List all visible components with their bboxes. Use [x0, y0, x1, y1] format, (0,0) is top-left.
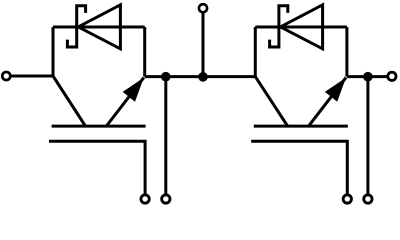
wire Q2 auxiliary emitter drop	[366, 77, 369, 194]
transistor Q1 emitter arrow	[106, 78, 143, 127]
wire top of cell 1	[53, 26, 145, 29]
diode D2	[280, 5, 322, 49]
terminal 7 (Q2 auxiliary emitter)	[364, 195, 372, 203]
terminal 2 (phase output, top middle)	[199, 4, 207, 12]
wire terminal 1 to Q1 collector node	[11, 75, 53, 78]
wire Q2 emitter to terminal 3	[347, 75, 388, 78]
wire D1 anode to emitter node	[143, 27, 146, 77]
junction Q2 auxiliary emitter	[363, 72, 373, 82]
terminal 4 (Q1 gate)	[141, 195, 149, 203]
transistor Q2 body bar	[254, 125, 348, 128]
wire mid bus (Q1 emitter to Q2 collector)	[145, 75, 256, 78]
wire top of cell 2	[255, 26, 347, 29]
diode D1	[78, 5, 120, 49]
transistor Q2 emitter arrow	[309, 78, 346, 127]
diode D2 cathode bar with hooks	[270, 6, 288, 47]
terminal 6 (Q2 gate)	[343, 195, 351, 203]
terminal 5 (Q1 auxiliary emitter)	[162, 195, 170, 203]
wire terminal 2 riser	[202, 13, 205, 77]
terminal 1 (left collector terminal)	[2, 72, 10, 80]
transistor Q1 gate bar	[49, 141, 145, 193]
node Q1 collector corner / wire	[52, 27, 55, 76]
diode D1 cathode bar with hooks	[67, 6, 85, 47]
node Q2 collector corner / wire	[254, 27, 257, 77]
junction mid bus / terminal 2	[198, 72, 208, 82]
terminal 3 (right emitter terminal)	[388, 72, 396, 80]
wire Q1 auxiliary emitter drop	[164, 77, 167, 194]
transistor Q1 body bar	[52, 125, 146, 128]
transistor Q2 gate bar	[251, 141, 347, 193]
wire D2 anode to emitter node	[345, 27, 348, 77]
transistor Q1 collector diagonal	[53, 76, 85, 126]
transistor Q2 collector diagonal	[255, 77, 287, 127]
junction Q1 auxiliary emitter	[161, 72, 171, 82]
